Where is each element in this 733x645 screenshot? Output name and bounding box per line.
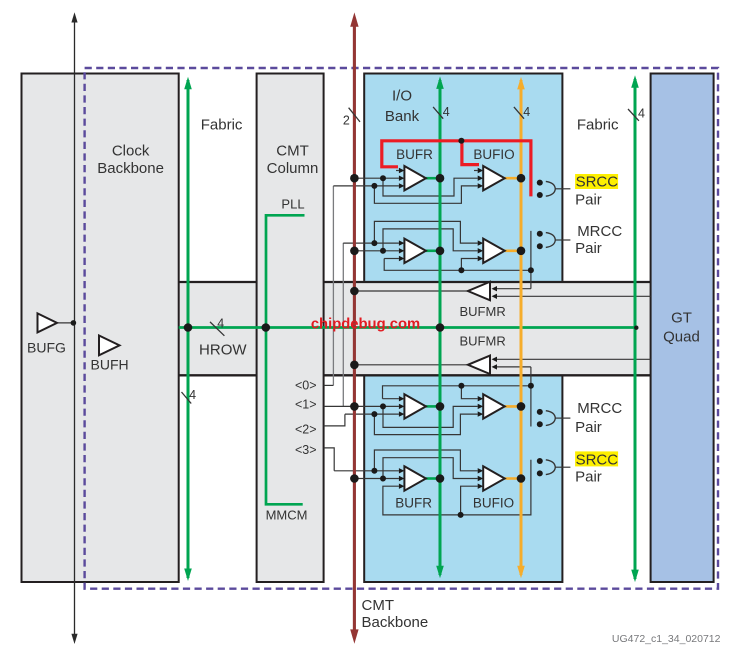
svg-text:4: 4 xyxy=(523,105,530,119)
svg-text:BUFIO: BUFIO xyxy=(473,147,514,162)
svg-text:4: 4 xyxy=(443,105,450,119)
svg-text:CMT: CMT xyxy=(276,142,309,159)
svg-text:Pair: Pair xyxy=(575,191,602,208)
svg-text:BUFIO: BUFIO xyxy=(473,496,514,511)
svg-text:4: 4 xyxy=(189,388,196,402)
svg-text:4: 4 xyxy=(217,316,224,330)
svg-text:BUFMR: BUFMR xyxy=(459,304,505,319)
svg-text:<1>: <1> xyxy=(295,397,317,411)
svg-text:MRCC: MRCC xyxy=(577,400,622,417)
svg-text:I/O: I/O xyxy=(392,88,412,105)
svg-text:BUFMR: BUFMR xyxy=(459,333,505,348)
svg-text:BUFR: BUFR xyxy=(395,496,432,511)
svg-text:BUFR: BUFR xyxy=(396,147,433,162)
svg-text:Clock: Clock xyxy=(112,142,150,159)
svg-text:Bank: Bank xyxy=(385,108,420,125)
svg-text:SRCC: SRCC xyxy=(576,173,619,190)
svg-text:CMT: CMT xyxy=(362,597,395,614)
svg-text:<3>: <3> xyxy=(295,443,317,457)
svg-text:BUFH: BUFH xyxy=(91,357,129,373)
svg-text:BUFG: BUFG xyxy=(27,340,66,356)
svg-text:HROW: HROW xyxy=(199,342,247,359)
svg-text:UG472_c1_34_020712: UG472_c1_34_020712 xyxy=(612,633,721,645)
svg-text:GT: GT xyxy=(671,310,692,327)
svg-text:Pair: Pair xyxy=(575,468,602,485)
svg-text:<0>: <0> xyxy=(295,379,317,393)
svg-text:MRCC: MRCC xyxy=(577,223,622,240)
svg-text:MMCM: MMCM xyxy=(266,508,308,523)
svg-text:Fabric: Fabric xyxy=(577,117,619,134)
svg-text:Fabric: Fabric xyxy=(201,117,243,134)
svg-text:4: 4 xyxy=(638,107,645,121)
svg-text:Backbone: Backbone xyxy=(362,614,429,631)
svg-text:chipdebug.com: chipdebug.com xyxy=(311,317,420,333)
svg-text:PLL: PLL xyxy=(281,197,304,212)
svg-text:<2>: <2> xyxy=(295,422,317,436)
svg-text:Column: Column xyxy=(267,160,319,177)
svg-text:2: 2 xyxy=(343,113,350,127)
svg-text:SRCC: SRCC xyxy=(576,451,619,468)
svg-text:Quad: Quad xyxy=(663,329,700,346)
svg-text:Backbone: Backbone xyxy=(97,160,164,177)
svg-text:Pair: Pair xyxy=(575,419,602,436)
svg-text:Pair: Pair xyxy=(575,240,602,257)
